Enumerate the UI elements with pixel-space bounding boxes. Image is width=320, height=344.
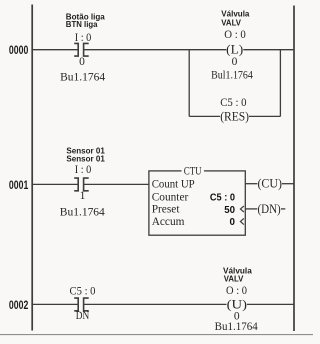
svg-text:0000: 0000 [9, 43, 29, 57]
branch bottom wire right [249, 115, 280, 117]
svg-text:50: 50 [224, 205, 235, 216]
wire CU coil to rail [282, 183, 294, 185]
svg-text:Bu1.1764: Bu1.1764 [60, 71, 105, 83]
svg-text:Accum: Accum [152, 216, 185, 228]
svg-text:0: 0 [232, 56, 238, 68]
wire rung 0000 left segment [32, 49, 78, 51]
branch bottom wire left [189, 115, 220, 117]
wire CTU to DN coil [245, 208, 257, 210]
contact I:0/1 Sensor 01 (XIC) [74, 178, 89, 191]
svg-text:O : 0: O : 0 [224, 29, 246, 41]
svg-text:Counter: Counter [152, 191, 189, 203]
CTU title gap [182, 168, 205, 175]
bottom page rule [0, 334, 313, 336]
svg-text:Bu1.1764: Bu1.1764 [60, 207, 105, 219]
svg-text:Sensor 01: Sensor 01 [66, 154, 105, 164]
svg-text:VALV: VALV [221, 17, 241, 27]
svg-text:I : 0: I : 0 [75, 32, 92, 44]
right power rail [293, 6, 295, 332]
svg-text:C5 : 0: C5 : 0 [210, 193, 236, 204]
stub after DN coil [281, 208, 285, 210]
wire rung 0002 middle segment [84, 303, 227, 305]
svg-text:(CU): (CU) [257, 176, 282, 191]
wire rung 0001 left segment [32, 183, 78, 185]
svg-text:O : 0: O : 0 [226, 285, 247, 297]
svg-text:Count UP: Count UP [152, 178, 195, 190]
counter block CTU C5:0 [149, 171, 245, 235]
wire rung 0001 to CTU [84, 183, 149, 185]
svg-text:CTU: CTU [184, 165, 202, 177]
svg-text:0: 0 [79, 56, 85, 68]
contact C5:0/DN (XIC) [74, 298, 89, 311]
svg-text:(DN): (DN) [257, 201, 280, 216]
svg-text:(RES): (RES) [220, 108, 249, 123]
svg-text:Preset: Preset [152, 204, 181, 216]
branch left vertical [188, 49, 190, 116]
left power rail [31, 5, 33, 331]
svg-text:1: 1 [80, 190, 86, 202]
svg-text:0001: 0001 [9, 178, 29, 192]
svg-text:0002: 0002 [9, 298, 29, 312]
svg-text:I : 0: I : 0 [75, 164, 92, 176]
wire rung 0002 right segment [247, 303, 294, 305]
contact I:0/0 Botao liga (XIC) [74, 43, 89, 56]
svg-text:0: 0 [230, 217, 236, 228]
svg-text:C5 : 0: C5 : 0 [70, 286, 96, 298]
svg-text:Bul1.1764: Bul1.1764 [211, 69, 253, 81]
branch right vertical [279, 49, 281, 116]
svg-text:VALV: VALV [224, 274, 244, 284]
svg-text:Bu1.1764: Bu1.1764 [215, 321, 258, 333]
accum arrow mark [240, 218, 244, 224]
wire CTU to CU coil [245, 183, 257, 185]
wire rung 0000 right segment [243, 49, 294, 51]
svg-text:DN: DN [76, 310, 90, 322]
wire rung 0002 left segment [32, 303, 78, 305]
svg-text:BTN liga: BTN liga [66, 19, 98, 29]
preset arrow mark [240, 206, 244, 212]
wire rung 0000 middle segment [84, 49, 227, 51]
svg-text:(U): (U) [227, 296, 247, 311]
svg-text:(L): (L) [226, 42, 243, 57]
svg-text:C5 : 0: C5 : 0 [220, 97, 247, 109]
